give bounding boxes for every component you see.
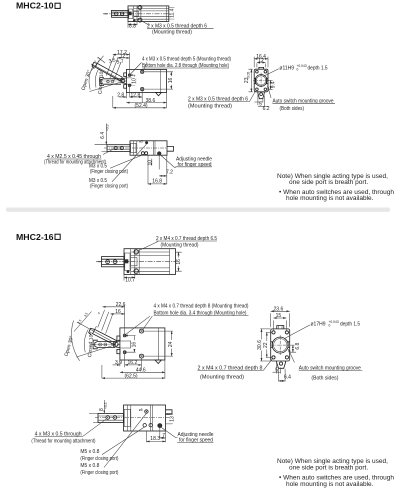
MHC2-16 bottom view [31,400,213,476]
label M3 port 2 [112,144,147,182]
MHC2-16 end view [257,307,362,382]
svg-text:ø17H9: ø17H9 [311,322,326,328]
attachment detail [129,9,133,19]
left-face guide stubs [117,336,120,340]
dim 16 [111,313,125,315]
svg-text:15: 15 [276,313,282,319]
svg-text:Open 30°: Open 30° [81,69,93,91]
svg-text:6.4: 6.4 [284,375,291,381]
body square [254,69,268,92]
finger rail [98,413,124,422]
dim 17.2 [113,54,130,56]
MHC2-10 end view [244,54,335,112]
finger rail [107,145,130,152]
svg-text:2.8: 2.8 [117,92,124,98]
body [130,141,167,155]
label M5 port 2 [104,413,146,467]
svg-text:10: 10 [148,160,154,166]
svg-text:(Finger closing port): (Finger closing port) [90,169,128,175]
dim 30.6 left [260,329,271,361]
dim 23 left [249,69,253,92]
dim 8 [89,413,98,422]
open finger [93,329,117,345]
dim 22.6 [103,306,125,308]
leader to thread text [131,62,147,74]
dim 16.4 [254,57,268,68]
svg-text:(62.5): (62.5) [125,373,138,379]
svg-text:10.7: 10.7 [125,277,135,283]
svg-text:7: 7 [162,433,165,439]
svg-text:16: 16 [115,309,121,315]
finger left tip tick [105,13,108,15]
dim 11.4 [169,7,175,19]
body (top view) [128,6,169,22]
svg-text:6.2: 6.2 [263,106,270,112]
svg-text:16: 16 [132,342,138,348]
note text block MHC2-10 [277,173,394,202]
svg-text:2 x M4 x 0.7 thread depth 6.5: 2 x M4 x 0.7 thread depth 6.5 [156,236,217,242]
svg-text:(Finger closing port): (Finger closing port) [80,456,118,462]
angled extension lines [98,54,121,81]
svg-text:(Mounting thread): (Mounting thread) [161,242,199,248]
right dim 16 [144,72,173,89]
svg-text:16.8: 16.8 [152,178,162,184]
dim 7.2 [159,175,167,177]
mounting thread circles 2xM4 [134,250,139,255]
corner holes [272,331,275,334]
angled dim line [74,312,92,332]
dim 8.8 [128,22,137,28]
fan arcs [89,66,93,90]
bottom dims 2.8 / 12.8 [126,87,166,108]
svg-text:17.2: 17.2 [117,50,127,56]
dim 10.7 [124,275,135,281]
note text block MHC2-16 [277,458,394,488]
finger closing ports [141,152,144,155]
svg-text:4 x M3 x 0.5 thread depth 5 (M: 4 x M3 x 0.5 thread depth 5 (Mounting th… [142,57,231,63]
cap line [160,69,162,92]
fingers [102,257,125,267]
svg-text:12: 12 [258,58,264,64]
svg-text:22: 22 [263,342,269,348]
tongue and pivot [121,78,126,84]
svg-text:4 x M3 x 0.5 through: 4 x M3 x 0.5 through [35,432,82,438]
port dot [133,19,136,22]
top port circle (filled) [145,141,148,144]
svg-text:MHC2-10: MHC2-10 [16,1,54,11]
svg-text:7.2: 7.2 [166,170,173,176]
bore label [285,325,311,339]
svg-text:8.8: 8.8 [129,24,136,30]
svg-text:(Mounting thread): (Mounting thread) [188,103,232,109]
dim 38.6 [126,102,166,104]
port triangle [156,93,162,96]
svg-text:depth 1.5: depth 1.5 [308,66,328,72]
dim 6.8 right [290,345,296,352]
open finger [95,63,122,81]
inner dim 16 [125,336,136,353]
label 4xM2.5 [103,149,114,155]
mounting holes 4xM4 [123,334,126,337]
auto switch label [288,349,294,362]
label 4xM3 through [83,419,106,436]
dim 5 [277,363,281,374]
dim 7 [147,428,166,442]
adjusting needle [157,151,161,155]
svg-text:(Mounting thread): (Mounting thread) [152,29,192,35]
fan lines [77,322,115,357]
MHC2-16 side view [64,302,273,380]
svg-text:0: 0 [297,67,299,71]
leaders to thread text [126,316,152,334]
dim 12 [257,63,266,67]
body outline [126,69,166,92]
svg-text:Open 30°: Open 30° [64,335,76,357]
bore label [264,69,279,76]
dim 6.2 [263,96,265,107]
label M3 port 1 [110,155,143,169]
svg-text:Closed 10°: Closed 10° [98,69,106,94]
svg-text:24: 24 [168,341,174,347]
svg-text:4 x M4 x 0.7 thread depth 8 (M: 4 x M4 x 0.7 thread depth 8 (Mounting th… [154,304,249,310]
finger bolt circles [115,12,118,15]
svg-text:5: 5 [275,367,278,373]
top tab [277,326,284,329]
dim 22 left [266,332,272,357]
svg-text:16: 16 [176,259,182,265]
svg-text:for finger speed: for finger speed [179,438,213,444]
svg-text:MHC2-16: MHC2-16 [16,232,54,242]
centerlines [272,335,289,355]
centerline [96,261,180,263]
MHC2-10 top view [103,5,214,35]
svg-text:(Finger closing port): (Finger closing port) [80,470,118,476]
svg-text:0: 0 [329,323,331,327]
svg-text:9.4: 9.4 [270,81,276,88]
svg-text:+0.3: +0.3 [104,402,108,409]
auto switch grooves [254,78,268,83]
svg-text:3.5: 3.5 [77,319,83,325]
port dot [127,270,130,273]
top port circle [145,410,148,413]
adjusting needle label [161,427,177,437]
svg-text:6.4: 6.4 [100,132,106,139]
svg-text:16.2: 16.2 [128,360,138,366]
label M5 port 1 [102,427,145,455]
body [124,405,166,431]
auto switch grooves [271,342,290,348]
adjusting needle [157,423,162,428]
svg-text:22.6: 22.6 [116,302,126,308]
closed finger [95,342,115,348]
dim 9.4 right [268,80,273,89]
svg-text:12.8: 12.8 [131,92,141,98]
svg-text:3.5: 3.5 [83,312,89,318]
auto switch label [268,86,272,98]
angled dim line 2/7/2 [91,56,104,72]
svg-text:depth 1.5: depth 1.5 [340,322,360,328]
gray separator band [6,208,390,212]
adjusting needle label [161,155,177,168]
svg-text:-0.05: -0.05 [246,72,250,80]
svg-text:4: 4 [97,311,101,315]
dim (52.4) [112,96,114,108]
svg-text:13: 13 [170,416,176,422]
svg-text:M5 x 0.8: M5 x 0.8 [80,449,99,455]
port triangle [155,360,161,364]
tongue and pivot [114,341,120,348]
left-face guide stubs [124,73,127,77]
bottom trapezoid [277,361,286,368]
svg-text:2 x M4 x 0.7 thread depth 8: 2 x M4 x 0.7 thread depth 8 [198,366,263,372]
dim 6.4 [95,145,108,152]
MHC2-10 side view [81,50,256,109]
svg-text:(Finger closing port): (Finger closing port) [90,184,128,190]
svg-text:10: 10 [131,78,137,84]
label 2xM4 mounting thread [138,241,158,250]
svg-text:(Mounting thread): (Mounting thread) [200,375,244,381]
centerlines [253,73,269,88]
closed finger [101,79,121,84]
svg-text:Bottom hole dia. 3.4 through (: Bottom hole dia. 3.4 through (Mounting h… [154,311,247,317]
svg-text:18.3: 18.3 [150,436,160,442]
dim 18.3 [147,440,166,442]
body square [271,329,290,361]
finger closing ports [143,424,146,427]
bore circle [272,337,288,353]
corner holes [256,70,259,73]
svg-text:5.7: 5.7 [116,59,124,66]
centerline [103,13,172,15]
dim 44.6 [120,371,165,373]
svg-text:23.6: 23.6 [274,307,284,313]
right nub [167,146,173,151]
dim 15 [274,320,287,330]
body [124,249,176,275]
svg-text:(Thread for mounting attachmen: (Thread for mounting attachment) [31,439,95,445]
svg-text:Bottom hole dia. 2.8 through (: Bottom hole dia. 2.8 through (Mounting h… [142,63,229,69]
dim 13 [166,413,173,424]
svg-text:one side port is breath port.: one side port is breath port. [289,179,368,186]
fan lines [90,64,122,92]
svg-text:ø5: ø5 [139,408,143,412]
svg-text:11.4: 11.4 [170,8,176,18]
dim 16.8 [148,183,167,185]
dim 6.4 [279,369,286,382]
svg-text:ø5: ø5 [139,139,143,143]
label 2xM3 mounting thread [142,21,150,25]
svg-text:+0.3: +0.3 [105,124,109,131]
svg-text:(52.4): (52.4) [135,103,148,109]
angled extension lines [98,310,113,334]
svg-text:(Both sides): (Both sides) [311,375,338,381]
body outline [120,328,165,360]
svg-text:(Both sides): (Both sides) [280,106,305,112]
svg-text:hole mounting is not available: hole mounting is not available. [286,195,374,202]
dim 23.6 [271,313,290,327]
bore circle [255,75,267,87]
svg-text:M5 x 0.8: M5 x 0.8 [80,463,99,469]
bottom trapezoid [258,92,264,99]
right dim 24 [144,331,173,356]
top tab [259,67,264,69]
fan arcs [71,321,79,361]
fingers (top view) [112,10,129,17]
dim 10 below [148,155,167,184]
dim (62.5) [101,365,103,378]
svg-text:16: 16 [168,78,174,84]
svg-text:one side port is breath port.: one side port is breath port. [289,465,368,472]
bottom dims 3.9 / 16.2 [120,354,165,379]
dim 16 [176,252,182,271]
MHC2-10 bottom view [44,124,212,190]
dim 5 [258,94,263,106]
svg-text:2 x M3 x 0.5 thread depth 6: 2 x M3 x 0.5 thread depth 6 [188,97,248,103]
svg-text:hole mounting is not available: hole mounting is not available. [286,481,374,488]
svg-text:Closed 10°: Closed 10° [87,332,95,357]
mounting holes 4xM3 [128,74,130,76]
inner dim 10 [130,75,136,85]
svg-text:for finger speed: for finger speed [178,162,212,168]
dim 12 [117,57,129,59]
right nub [166,410,173,415]
svg-text:6.8: 6.8 [295,342,301,349]
mounting thread circles 2xM3 [138,5,142,9]
svg-text:3.9: 3.9 [115,360,122,366]
svg-text:ø11H9: ø11H9 [279,66,294,72]
MHC2-16 top view [96,236,217,283]
